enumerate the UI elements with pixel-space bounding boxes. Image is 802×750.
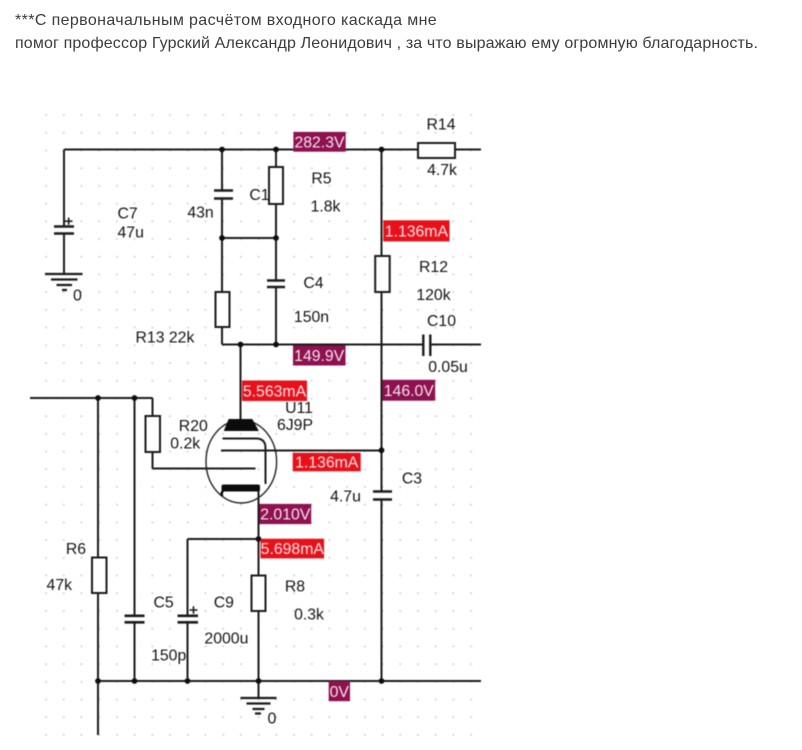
node top-R12	[379, 147, 385, 153]
svg-text:0: 0	[268, 711, 277, 728]
node bus-C9	[185, 678, 191, 684]
node bus-R8	[256, 678, 262, 684]
svg-text:5.563mA: 5.563mA	[243, 383, 307, 400]
svg-text:C10: C10	[427, 313, 456, 330]
resistor R6	[47, 541, 107, 594]
svg-text:282.3V: 282.3V	[294, 134, 345, 151]
svg-text:1.136mA: 1.136mA	[385, 224, 449, 241]
svg-text:4.7k: 4.7k	[427, 162, 457, 179]
svg-text:2000u: 2000u	[204, 631, 248, 648]
node screen	[379, 447, 385, 453]
resistor R13	[136, 292, 230, 347]
wire R5 branch	[275, 150, 277, 345]
wire ground stub	[258, 681, 260, 698]
svg-text:R20: R20	[179, 418, 208, 435]
svg-text:47u: 47u	[118, 225, 144, 242]
node bridge-right	[273, 235, 279, 241]
label 5.563mA	[242, 381, 307, 402]
capacitor C10	[423, 313, 467, 376]
svg-text:43n: 43n	[187, 205, 213, 222]
svg-text:2.010V: 2.010V	[260, 507, 311, 524]
svg-text:4.7u: 4.7u	[330, 489, 361, 506]
svg-text:R13 22k: R13 22k	[136, 330, 195, 347]
label 149.9V	[293, 346, 346, 366]
svg-text:0.3k: 0.3k	[294, 607, 324, 624]
svg-text:146.0V: 146.0V	[384, 383, 435, 400]
label 1.136mA screen	[293, 453, 361, 472]
wire right rail	[381, 150, 383, 682]
svg-text:0V: 0V	[330, 684, 350, 701]
svg-text:150n: 150n	[294, 309, 329, 326]
node bus-R6	[95, 678, 101, 684]
label 5.698mA	[261, 539, 325, 559]
wire 149.9V node	[222, 344, 481, 346]
wire C9 branch	[188, 539, 259, 681]
svg-text:1.136mA: 1.136mA	[295, 454, 359, 471]
svg-text:150p: 150p	[151, 648, 186, 665]
wire C5 branch	[134, 398, 136, 681]
node top-R5	[273, 147, 279, 153]
capacitor C7	[54, 206, 144, 242]
svg-text:C7: C7	[118, 206, 138, 223]
wire top bus	[64, 149, 481, 151]
svg-text:U11: U11	[285, 400, 313, 417]
node top-43n	[219, 147, 225, 153]
svg-text:1.8k: 1.8k	[311, 199, 341, 216]
node input-C5	[132, 395, 138, 401]
svg-text:R12: R12	[419, 259, 448, 276]
resistor R8	[252, 576, 325, 624]
svg-text:149.9V: 149.9V	[294, 348, 345, 365]
wire cathode branch	[258, 491, 260, 681]
svg-text:R14: R14	[427, 117, 456, 134]
svg-text:C4: C4	[303, 275, 323, 292]
resistor R20	[146, 416, 209, 453]
capacitor C3	[330, 471, 422, 506]
resistor R12	[375, 256, 451, 304]
wire input	[30, 398, 256, 469]
capacitor C5	[125, 594, 187, 664]
label 0V	[329, 681, 350, 701]
node bus-C3	[379, 678, 385, 684]
node C4-bottom	[273, 342, 279, 348]
node input-R6	[95, 395, 101, 401]
wire C7 branch	[63, 150, 65, 274]
svg-text:C3: C3	[402, 471, 422, 488]
resistor R5	[269, 167, 341, 216]
ground C7	[45, 274, 83, 305]
wire R6 branch	[97, 398, 99, 735]
node bridge-left	[219, 235, 225, 241]
capacitor C4	[267, 275, 329, 326]
svg-text:5.698mA: 5.698mA	[261, 541, 325, 558]
node cathode-C9	[256, 536, 262, 542]
svg-text:C5: C5	[153, 594, 173, 611]
node anode	[238, 342, 244, 348]
svg-text:0.2k: 0.2k	[170, 436, 200, 453]
svg-text:C1: C1	[249, 187, 269, 204]
wire bottom bus	[98, 680, 481, 682]
label 1.136mA anode-rail	[383, 220, 449, 241]
label 2.010V	[260, 504, 312, 524]
svg-text:R5: R5	[311, 171, 331, 188]
wire anode lead	[240, 345, 242, 420]
wire screen lead	[221, 450, 382, 452]
capacitor C9	[178, 594, 249, 647]
wire R13 branch	[221, 238, 223, 345]
resistor R14	[418, 117, 457, 180]
capacitor C1 43n	[187, 187, 269, 222]
tube U11 6J9P	[206, 400, 313, 503]
label 282.3V	[293, 132, 345, 152]
wire bridge node	[222, 237, 276, 239]
label 146.0V	[382, 380, 435, 401]
svg-text:6J9P: 6J9P	[277, 417, 313, 434]
svg-text:0: 0	[73, 288, 82, 305]
svg-text:R6: R6	[66, 541, 86, 558]
svg-text:R8: R8	[285, 579, 305, 596]
svg-text:C9: C9	[214, 594, 234, 611]
svg-text:0.05u: 0.05u	[428, 359, 468, 376]
wire 43n branch	[221, 150, 223, 239]
svg-text:47k: 47k	[47, 577, 73, 594]
node bus-C5	[132, 678, 138, 684]
ground R8	[241, 698, 277, 728]
svg-text:120k: 120k	[416, 287, 450, 304]
